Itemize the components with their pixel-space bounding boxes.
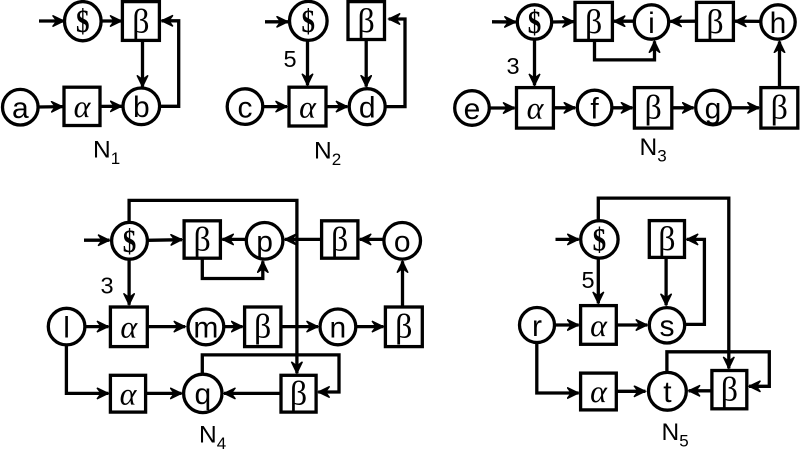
svg-text:q: q — [194, 378, 211, 411]
svg-text:$: $ — [528, 5, 542, 41]
N5 start arrow — [556, 238, 579, 241]
N5 place r — [520, 308, 555, 343]
svg-text:c: c — [238, 91, 253, 124]
svg-text:n: n — [330, 312, 347, 345]
N4 place l — [48, 308, 85, 345]
svg-text:e: e — [464, 93, 481, 126]
N4 transition beta9 — [281, 375, 316, 412]
svg-text:β: β — [706, 4, 723, 41]
N1 start arrow — [39, 19, 64, 22]
N2 place $ — [290, 1, 328, 40]
svg-text:$: $ — [302, 4, 316, 40]
N5 place s — [649, 308, 684, 344]
svg-text:$: $ — [593, 222, 607, 258]
N3 arc f to beta3 — [612, 106, 632, 109]
N4 place o — [384, 223, 421, 260]
N2 transition alpha — [289, 87, 326, 126]
N5 transition alpha5 — [581, 373, 617, 410]
N1 transition alpha — [64, 87, 100, 125]
svg-text:N1: N1 — [93, 137, 120, 169]
N4 arc beta6 to p — [285, 238, 322, 241]
N4 arc $ to beta5 — [148, 238, 182, 242]
svg-text:α: α — [527, 90, 545, 126]
N4 arc $ to beta9 long link — [129, 200, 297, 373]
svg-text:p: p — [256, 226, 273, 259]
N5 arc r to alpha5 — [537, 343, 579, 394]
svg-text:β: β — [585, 4, 602, 41]
svg-text:o: o — [394, 226, 411, 259]
N5 arc $ to alpha4 — [597, 258, 600, 303]
N4 place $ — [112, 222, 148, 259]
N3 arc beta2 to i — [670, 20, 696, 23]
N4 arc alpha3 to q — [146, 392, 182, 395]
N2 transition beta — [348, 2, 385, 40]
N4 arc q to beta9 loop — [202, 355, 339, 392]
N2 arc d to beta feedback — [385, 19, 405, 107]
N5 transition beta10 — [649, 221, 684, 258]
N4 place n — [320, 309, 356, 345]
N5 arc r to alpha4 — [555, 323, 579, 326]
N1 place $ — [65, 2, 102, 41]
N3 arc h to beta2 — [735, 20, 761, 23]
N4 arc beta8 to o — [401, 261, 404, 307]
svg-text:b: b — [133, 91, 150, 124]
N5 place $ — [581, 221, 618, 259]
N1 transition beta — [122, 2, 159, 41]
svg-text:s: s — [660, 310, 675, 343]
N4 arc l to alpha3 — [66, 345, 108, 393]
N5 place t — [649, 372, 687, 410]
svg-text:α: α — [299, 88, 317, 124]
N3 arc i to beta1 — [614, 20, 635, 23]
N1 place a — [3, 89, 39, 125]
svg-text:i: i — [648, 7, 655, 40]
N4 arc beta7 to n — [281, 325, 318, 328]
N3 arc g to beta4 — [731, 106, 759, 109]
N2 arc c to alpha — [263, 105, 287, 108]
svg-text:β: β — [771, 90, 788, 127]
svg-text:β: β — [395, 309, 412, 346]
svg-text:h: h — [770, 7, 787, 40]
svg-text:N5: N5 — [662, 419, 689, 450]
svg-text:d: d — [359, 92, 376, 125]
N1 place b — [123, 88, 160, 125]
N2 arc alpha to d — [326, 105, 347, 108]
N3 transition beta4 — [761, 88, 798, 129]
svg-text:α: α — [590, 373, 608, 409]
N3 place i — [634, 5, 668, 40]
N5 arc beta10 to s — [664, 257, 667, 305]
N3 transition beta3 — [634, 88, 671, 129]
N1 arc a to alpha — [38, 105, 62, 109]
svg-text:g: g — [705, 92, 722, 125]
N3 arc $ to beta1 — [552, 20, 574, 24]
N3 place $ — [517, 5, 551, 41]
N4 arc l to alpha2 — [85, 325, 108, 328]
N4 transition beta5 — [184, 221, 220, 259]
svg-text:β: β — [358, 3, 375, 40]
N4 arc $ to alpha2 — [127, 259, 130, 304]
svg-text:f: f — [590, 92, 599, 125]
svg-text:5: 5 — [581, 267, 594, 293]
N4 place p — [246, 223, 283, 260]
N4 transition alpha2 — [110, 307, 147, 347]
N4 transition alpha3 — [110, 375, 145, 412]
N4 arc beta5 to p loop — [202, 258, 262, 278]
N5 arc alpha4 to s — [617, 323, 648, 326]
N4 transition beta7 — [245, 307, 281, 347]
svg-text:β: β — [132, 3, 149, 40]
N2 place c — [227, 89, 263, 125]
svg-text:N4: N4 — [199, 422, 226, 450]
N4 arc alpha2 to m — [148, 325, 186, 328]
N3 transition alpha — [517, 88, 554, 129]
N5 transition alpha4 — [581, 306, 617, 345]
N2 arc beta to d — [365, 40, 368, 87]
svg-text:a: a — [12, 92, 29, 125]
svg-text:m: m — [193, 312, 218, 345]
svg-text:α: α — [120, 375, 138, 411]
N4 transition beta6 — [322, 221, 358, 259]
N4 arc m to beta7 — [224, 325, 243, 328]
N3 transition beta2 — [697, 2, 734, 41]
N5 transition beta11 — [712, 371, 747, 409]
N1 arc beta to b — [141, 41, 144, 87]
svg-text:3: 3 — [100, 273, 113, 299]
N4 place q — [184, 374, 222, 412]
N5 arc $ to beta11 long link — [598, 198, 729, 368]
svg-text:5: 5 — [283, 46, 296, 72]
N3 transition beta1 — [575, 2, 612, 41]
svg-text:β: β — [721, 372, 738, 409]
N5 arc beta11 to t — [689, 389, 712, 392]
svg-text:$: $ — [76, 4, 90, 40]
N4 arc o to beta6 — [360, 238, 384, 241]
svg-text:α: α — [590, 307, 608, 343]
N2 arc $ to alpha — [306, 41, 309, 86]
N3 place e — [455, 91, 490, 126]
svg-text:β: β — [331, 222, 348, 259]
svg-text:β: β — [644, 90, 661, 127]
N3 arc $ to alpha — [533, 39, 536, 85]
svg-text:α: α — [120, 309, 138, 345]
svg-text:β: β — [290, 375, 307, 412]
N4 arc n to beta8 — [356, 325, 383, 328]
N3 arc e to alpha — [490, 106, 515, 109]
svg-text:3: 3 — [506, 53, 519, 79]
N5 arc s to beta10 loop — [685, 239, 705, 324]
N4 place m — [188, 309, 224, 345]
N1 arc alpha to b — [100, 105, 121, 108]
svg-text:β: β — [254, 309, 271, 346]
N3 arc beta3 to g — [672, 106, 694, 109]
N3 place f — [577, 90, 612, 125]
N4 arc p to beta5 — [222, 238, 246, 241]
svg-text:N3: N3 — [640, 134, 667, 166]
N4 transition beta8 — [385, 307, 422, 347]
N2 place d — [349, 89, 385, 125]
N1 arc b to beta feedback — [159, 21, 178, 107]
N3 arc beta4 to h — [778, 41, 781, 87]
N3 place g — [696, 90, 731, 125]
N3 start arrow — [492, 20, 516, 24]
svg-text:t: t — [663, 376, 672, 409]
svg-text:β: β — [194, 222, 211, 259]
N5 arc t to beta11 loop — [667, 352, 769, 387]
N3 arc beta1 to i loop — [595, 41, 655, 60]
N1 arc $ to beta — [102, 19, 122, 22]
svg-text:β: β — [658, 221, 675, 258]
svg-text:N2: N2 — [314, 138, 341, 170]
N5 arc alpha5 to t — [617, 390, 646, 393]
N3 place h — [761, 5, 795, 40]
svg-text:$: $ — [123, 224, 137, 260]
N2 start arrow — [265, 20, 288, 23]
svg-text:r: r — [532, 310, 542, 343]
N4 arc beta9 to q — [224, 392, 281, 395]
svg-text:l: l — [63, 311, 70, 344]
N4 start arrow — [84, 239, 110, 242]
N3 arc alpha to f — [554, 106, 576, 109]
svg-text:α: α — [74, 88, 92, 124]
